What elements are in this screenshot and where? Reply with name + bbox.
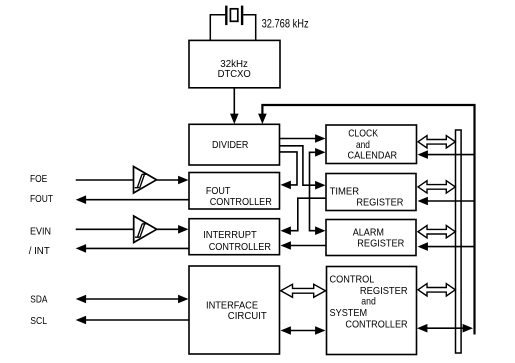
crystal X1 <box>210 6 255 41</box>
wire EVIN to interrupt controller <box>157 225 189 234</box>
wire control line to timer <box>418 197 475 206</box>
interface-control hollow arrow <box>281 284 326 297</box>
wire EVIN input <box>76 228 134 230</box>
svg-text:SYSTEM: SYSTEM <box>330 308 368 319</box>
svg-text:DTCXO: DTCXO <box>218 69 251 80</box>
svg-text:REGISTER: REGISTER <box>360 286 408 297</box>
svg-text:/ INT: / INT <box>29 246 51 257</box>
clock and calendar box <box>326 125 417 164</box>
svg-text:CIRCUIT: CIRCUIT <box>228 311 268 322</box>
svg-text:TIMER: TIMER <box>330 186 360 197</box>
svg-text:32.768 kHz: 32.768 kHz <box>262 18 309 31</box>
buffer EVIN schmitt <box>134 216 157 243</box>
svg-text:CONTROLLER: CONTROLLER <box>209 242 272 253</box>
bus arrow alarm <box>418 226 455 238</box>
wire control line to clock <box>418 150 475 159</box>
svg-text:FOUT: FOUT <box>206 186 231 197</box>
wire INT output <box>76 244 189 253</box>
svg-text:EVIN: EVIN <box>30 226 51 237</box>
bus arrow clock <box>418 136 455 148</box>
bus arrow control <box>418 284 455 296</box>
interface circuit box <box>189 266 280 354</box>
divider box DIVIDER <box>189 124 280 165</box>
svg-text:ALARM: ALARM <box>353 228 384 239</box>
svg-text:and: and <box>356 140 370 151</box>
svg-text:SDA: SDA <box>30 295 47 306</box>
wire SCL <box>76 316 190 325</box>
timer register box <box>326 174 416 211</box>
interface-control data arrow <box>281 326 326 335</box>
wire FOE input <box>76 179 134 181</box>
wire control line to alarm <box>418 242 475 251</box>
wire divider to clock <box>280 134 326 143</box>
svg-text:CONTROL: CONTROL <box>330 275 375 286</box>
wire clock feed to alarm <box>310 148 326 235</box>
wire divider to timer <box>280 146 326 190</box>
wire FOE to fout controller <box>157 176 189 185</box>
svg-text:FOUT: FOUT <box>30 194 54 205</box>
svg-text:REGISTER: REGISTER <box>356 197 403 208</box>
svg-text:and: and <box>361 297 376 308</box>
wire control link bottom <box>417 324 473 333</box>
alarm register box <box>326 220 416 256</box>
svg-text:CONTROLLER: CONTROLLER <box>345 320 408 331</box>
fout controller box <box>189 173 280 210</box>
svg-text:DIVIDER: DIVIDER <box>212 140 249 151</box>
svg-text:CLOCK: CLOCK <box>348 129 378 140</box>
bus arrow timer <box>418 181 455 193</box>
interrupt controller box <box>189 219 280 255</box>
wire alarm to interrupt <box>281 241 327 250</box>
wire divider to fout controller <box>280 152 298 189</box>
svg-text:CONTROLLER: CONTROLLER <box>210 197 273 208</box>
svg-text:FOE: FOE <box>30 174 47 185</box>
svg-text:CALENDAR: CALENDAR <box>348 151 398 162</box>
svg-text:INTERRUPT: INTERRUPT <box>203 230 257 241</box>
wire SDA bidirectional <box>76 295 189 304</box>
oscillator box U1 32kHz DTCXO <box>189 40 280 87</box>
wire DTCXO to DIVIDER <box>230 88 239 124</box>
svg-text:REGISTER: REGISTER <box>357 239 404 250</box>
wire timer to interrupt <box>281 198 327 235</box>
buffer FOE schmitt <box>134 167 157 194</box>
svg-text:SCL: SCL <box>30 316 47 327</box>
wire control feedback top <box>258 105 474 335</box>
data bus <box>456 130 462 353</box>
wire FOUT output <box>76 195 189 204</box>
control register box <box>327 267 417 355</box>
